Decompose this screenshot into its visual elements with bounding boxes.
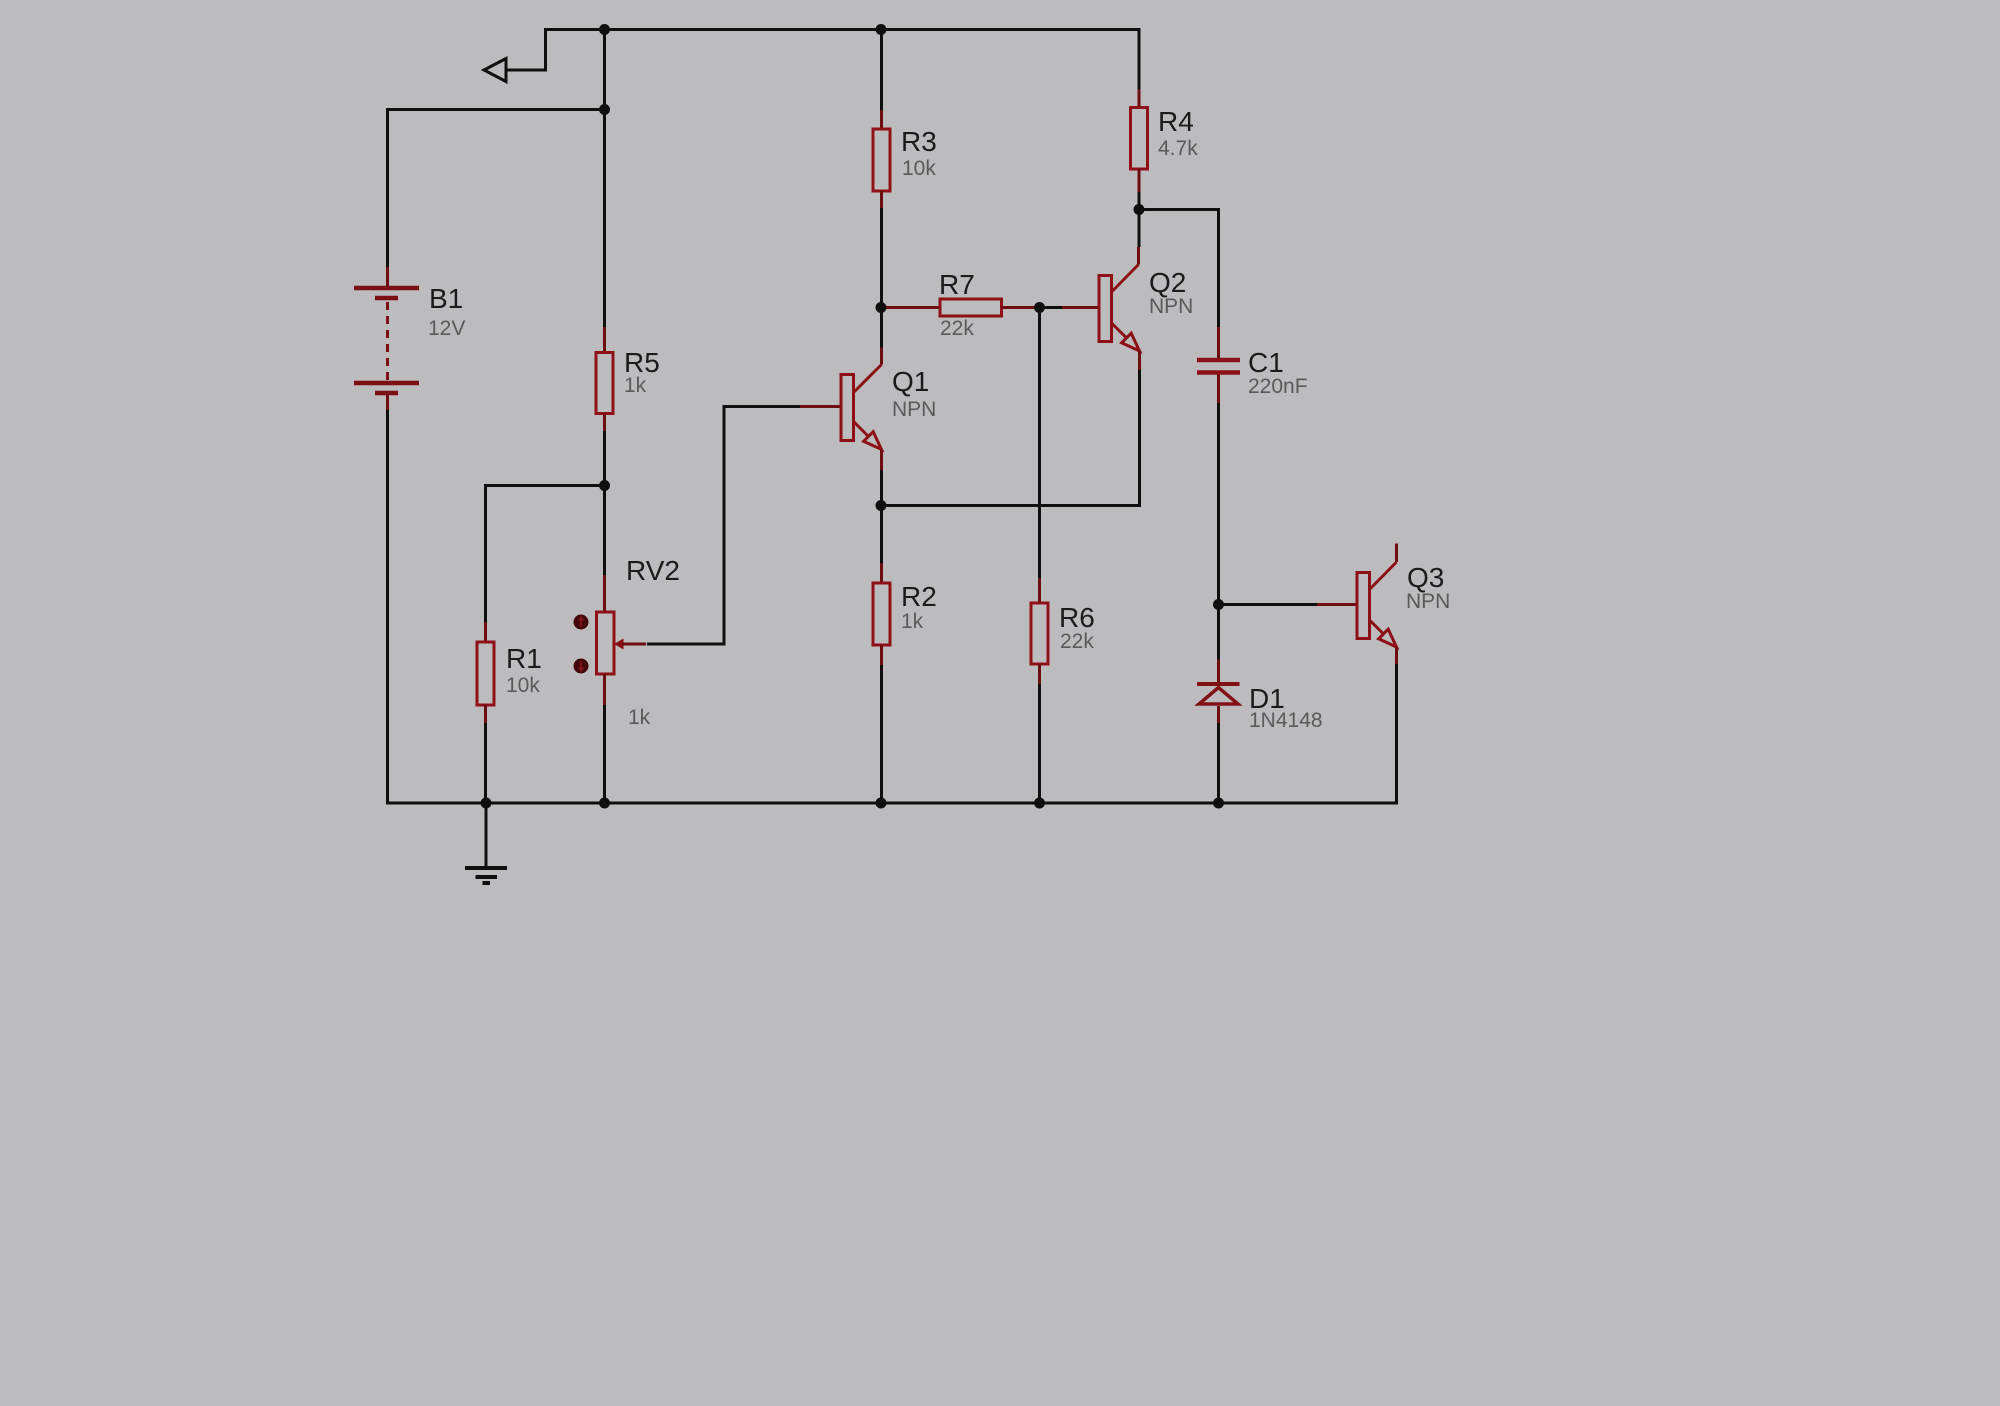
node R4/Q2 collector/C1 — [1134, 204, 1145, 215]
svg-text:Q2: Q2 — [1149, 267, 1186, 298]
wire top VCC rail — [544, 28, 1141, 31]
node R7/R6/Q2 base — [1034, 302, 1045, 313]
node second rail / R5 column — [599, 104, 610, 115]
svg-text:Q3: Q3 — [1407, 562, 1444, 593]
wire Q3 emitter down — [1395, 664, 1398, 803]
wire R5 to RV2 — [603, 431, 606, 575]
node rail/R2 — [876, 798, 887, 809]
battery B1 — [354, 267, 419, 410]
svg-text:R4: R4 — [1158, 106, 1194, 137]
wire R3 to Q1 collector node — [880, 208, 883, 348]
wire R2 bottom — [880, 665, 883, 803]
svg-text:10k: 10k — [506, 674, 540, 697]
resistor R3 — [873, 110, 890, 208]
resistor R6 — [1031, 578, 1048, 684]
wire Q3 base — [1219, 603, 1318, 606]
wire RV2 bottom — [603, 705, 606, 803]
resistor R5 — [596, 327, 613, 431]
wire R7 to Q2 base — [1036, 306, 1062, 309]
node R3/R7/Q1 collector — [876, 302, 887, 313]
svg-text:4.7k: 4.7k — [1158, 137, 1198, 160]
resistor R7 — [886, 299, 1036, 316]
transistor Q1 — [800, 348, 882, 471]
node rail/R1 ground — [481, 798, 492, 809]
svg-text:R6: R6 — [1059, 602, 1095, 633]
wire RV2 wiper to Q1 base — [647, 407, 800, 645]
wire R6 column top — [1038, 308, 1041, 579]
wire Q1 emitter down — [880, 470, 883, 563]
wire battery bottom lead — [386, 410, 389, 803]
wire R5 column upper — [603, 30, 606, 328]
node top rail / R3 column — [876, 24, 887, 35]
svg-text:1k: 1k — [624, 374, 647, 397]
svg-text:1k: 1k — [901, 610, 924, 633]
svg-text:1N4148: 1N4148 — [1249, 709, 1323, 732]
wire D1 bottom — [1217, 723, 1220, 803]
svg-text:R1: R1 — [506, 643, 542, 674]
wire branch to R1 — [486, 486, 605, 623]
node Q1 emitter/R2 — [876, 500, 887, 511]
svg-text:R7: R7 — [939, 269, 975, 300]
wire R4 column top — [1138, 30, 1141, 90]
wire C1 to D1 node — [1217, 403, 1220, 660]
svg-text:NPN: NPN — [1406, 590, 1450, 613]
wire R3 column top — [880, 30, 883, 111]
resistor R2 — [873, 563, 890, 665]
svg-text:Q1: Q1 — [892, 366, 929, 397]
node rail/D1 — [1213, 798, 1224, 809]
svg-text:C1: C1 — [1248, 347, 1284, 378]
svg-text:22k: 22k — [940, 317, 974, 340]
resistor R1 — [477, 622, 494, 723]
power tap symbol — [484, 30, 546, 82]
wire second rail to battery — [388, 110, 605, 268]
ground — [465, 803, 507, 883]
potentiometer RV2 — [574, 575, 647, 705]
svg-text:1k: 1k — [628, 706, 651, 729]
diode D1 — [1197, 660, 1240, 724]
node rail/R6 — [1034, 798, 1045, 809]
svg-text:NPN: NPN — [892, 398, 936, 421]
svg-text:220nF: 220nF — [1248, 375, 1308, 398]
wire R6 bottom — [1038, 684, 1041, 803]
wire node to C1 top — [1139, 210, 1219, 328]
svg-text:10k: 10k — [902, 157, 936, 180]
wire bottom ground rail — [386, 802, 1398, 805]
svg-text:RV2: RV2 — [626, 555, 680, 586]
svg-text:NPN: NPN — [1149, 295, 1193, 318]
node C1/D1/Q3 base — [1213, 599, 1224, 610]
capacitor C1 — [1197, 327, 1240, 403]
wire R1 bottom — [484, 723, 487, 803]
svg-text:22k: 22k — [1060, 630, 1094, 653]
svg-text:R3: R3 — [901, 126, 937, 157]
svg-text:R2: R2 — [901, 581, 937, 612]
wire R4 to Q2 collector node — [1138, 192, 1141, 247]
node R5/R1 branch — [599, 480, 610, 491]
svg-text:12V: 12V — [428, 317, 465, 340]
transistor Q2 — [1062, 247, 1140, 370]
svg-text:B1: B1 — [429, 283, 463, 314]
node rail/RV2 — [599, 798, 610, 809]
resistor R4 — [1131, 89, 1148, 192]
transistor Q3 — [1317, 544, 1397, 665]
wire Q2 emitter to Q1 emitter node — [881, 370, 1140, 506]
node top rail / R5 column — [599, 24, 610, 35]
